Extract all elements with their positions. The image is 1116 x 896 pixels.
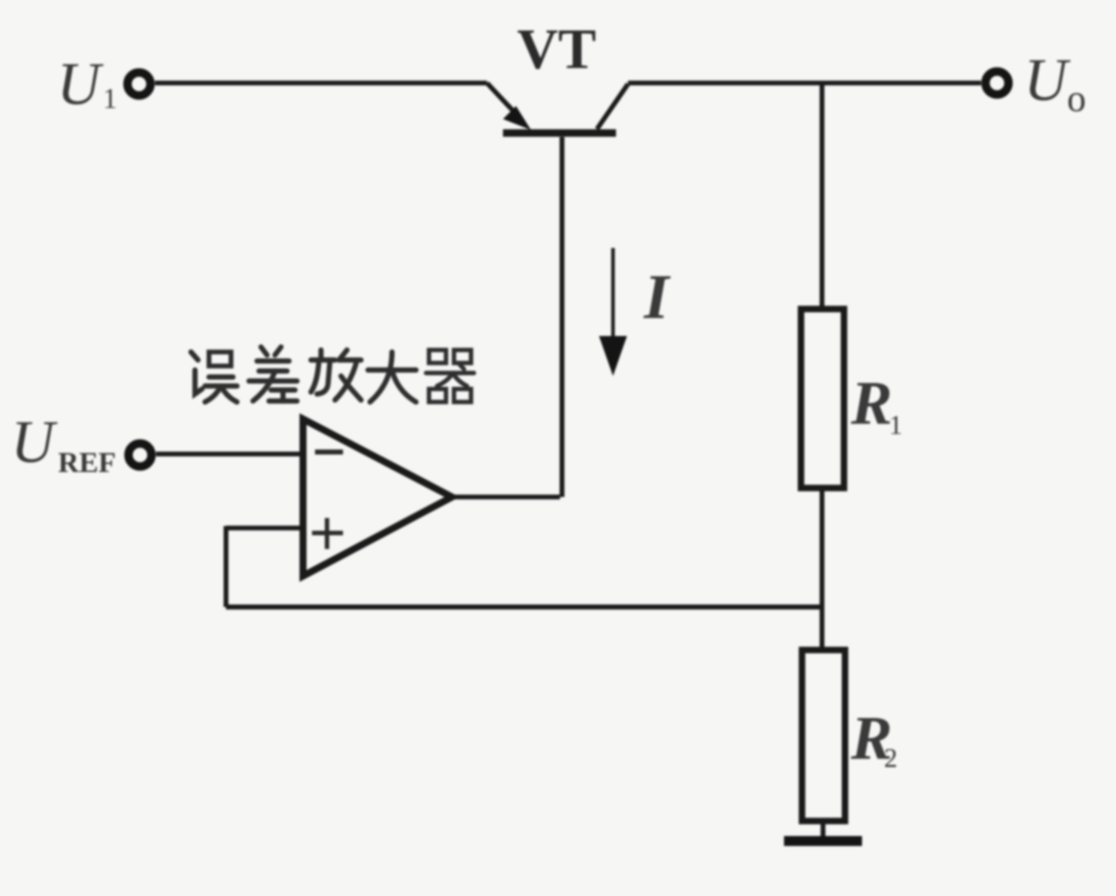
ground xyxy=(784,836,862,846)
node U1 terminal xyxy=(128,73,151,96)
放 xyxy=(311,350,361,400)
op-amp minus input sign xyxy=(315,450,343,455)
wire U1 to transistor emitter xyxy=(155,81,487,86)
op-amp plus input sign xyxy=(312,518,343,549)
label R1 xyxy=(850,370,903,440)
svg-text:1: 1 xyxy=(889,410,903,440)
label Uo xyxy=(1024,47,1086,120)
误 xyxy=(191,352,237,402)
node UREF terminal xyxy=(129,444,152,467)
base bar xyxy=(503,129,616,137)
label U1 xyxy=(57,51,117,117)
器 xyxy=(426,350,474,402)
node Uo terminal xyxy=(986,72,1009,95)
svg-text:o: o xyxy=(1067,78,1086,120)
wire junction vertical to R1 xyxy=(820,81,825,309)
collector diagonal xyxy=(597,84,628,129)
transistor VT xyxy=(487,83,628,133)
svg-text:I: I xyxy=(643,261,671,332)
label R2 xyxy=(850,705,898,773)
差 xyxy=(249,347,297,401)
svg-text:REF: REF xyxy=(58,447,116,479)
svg-text:1: 1 xyxy=(103,84,117,115)
svg-text:U: U xyxy=(11,409,58,475)
svg-text:R: R xyxy=(850,370,892,438)
current arrow I xyxy=(599,248,627,376)
wire collector to Uo xyxy=(628,81,981,86)
label 误差放大器 (error amplifier) : drawn glyphs xyxy=(191,347,474,402)
wire R1 to R2 through junction xyxy=(820,488,825,650)
resistor R2 xyxy=(802,650,845,821)
svg-text:VT: VT xyxy=(517,18,596,81)
wire non-inverting input xyxy=(226,526,300,531)
wire UREF to inverting input xyxy=(156,452,300,457)
label UREF xyxy=(11,409,116,479)
svg-text:2: 2 xyxy=(884,743,898,773)
op-amp error amplifier U1 triangle xyxy=(303,419,452,576)
wire R2 to ground xyxy=(821,821,826,838)
wire op-amp output xyxy=(452,495,560,500)
emitter diagonal with arrow into base xyxy=(487,83,517,115)
wire base lead down to op-amp output xyxy=(560,137,565,497)
svg-text:U: U xyxy=(57,51,104,117)
大 xyxy=(368,352,416,402)
wire feedback vertical xyxy=(224,526,229,607)
wire feedback horizontal to divider xyxy=(226,605,824,610)
resistor R1 xyxy=(801,309,844,488)
svg-text:U: U xyxy=(1024,47,1071,113)
